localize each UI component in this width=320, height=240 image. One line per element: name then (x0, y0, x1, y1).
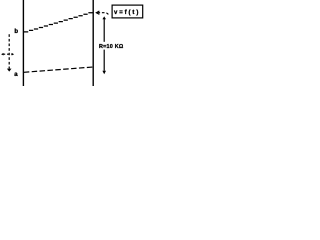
box U1: source block (112, 5, 143, 18)
wire: dashed lead from node a to right conductor (24, 67, 93, 72)
wire: dashed lead from node b to right conductor (24, 13, 93, 32)
arrow: vertical double-headed voltage arrow (upper shaft) (103, 19, 105, 42)
arrow: vertical double-headed voltage arrow (lower shaft) (103, 50, 105, 71)
svg-text:R=10 KΩ: R=10 KΩ (99, 44, 124, 50)
svg-text:b: b (14, 29, 18, 35)
arrow: dashed horizontal double-headed arrow at left (3, 53, 13, 55)
svg-text:v=f(t): v=f(t) (114, 10, 140, 16)
arrow: dashed vertical arrow at left (b to a) (8, 34, 10, 68)
wire: right vertical conductor (92, 0, 94, 86)
wire: left vertical conductor (22, 0, 24, 86)
wire: dashed arrow from box to node on right conductor (98, 13, 109, 15)
svg-text:a: a (14, 72, 18, 78)
